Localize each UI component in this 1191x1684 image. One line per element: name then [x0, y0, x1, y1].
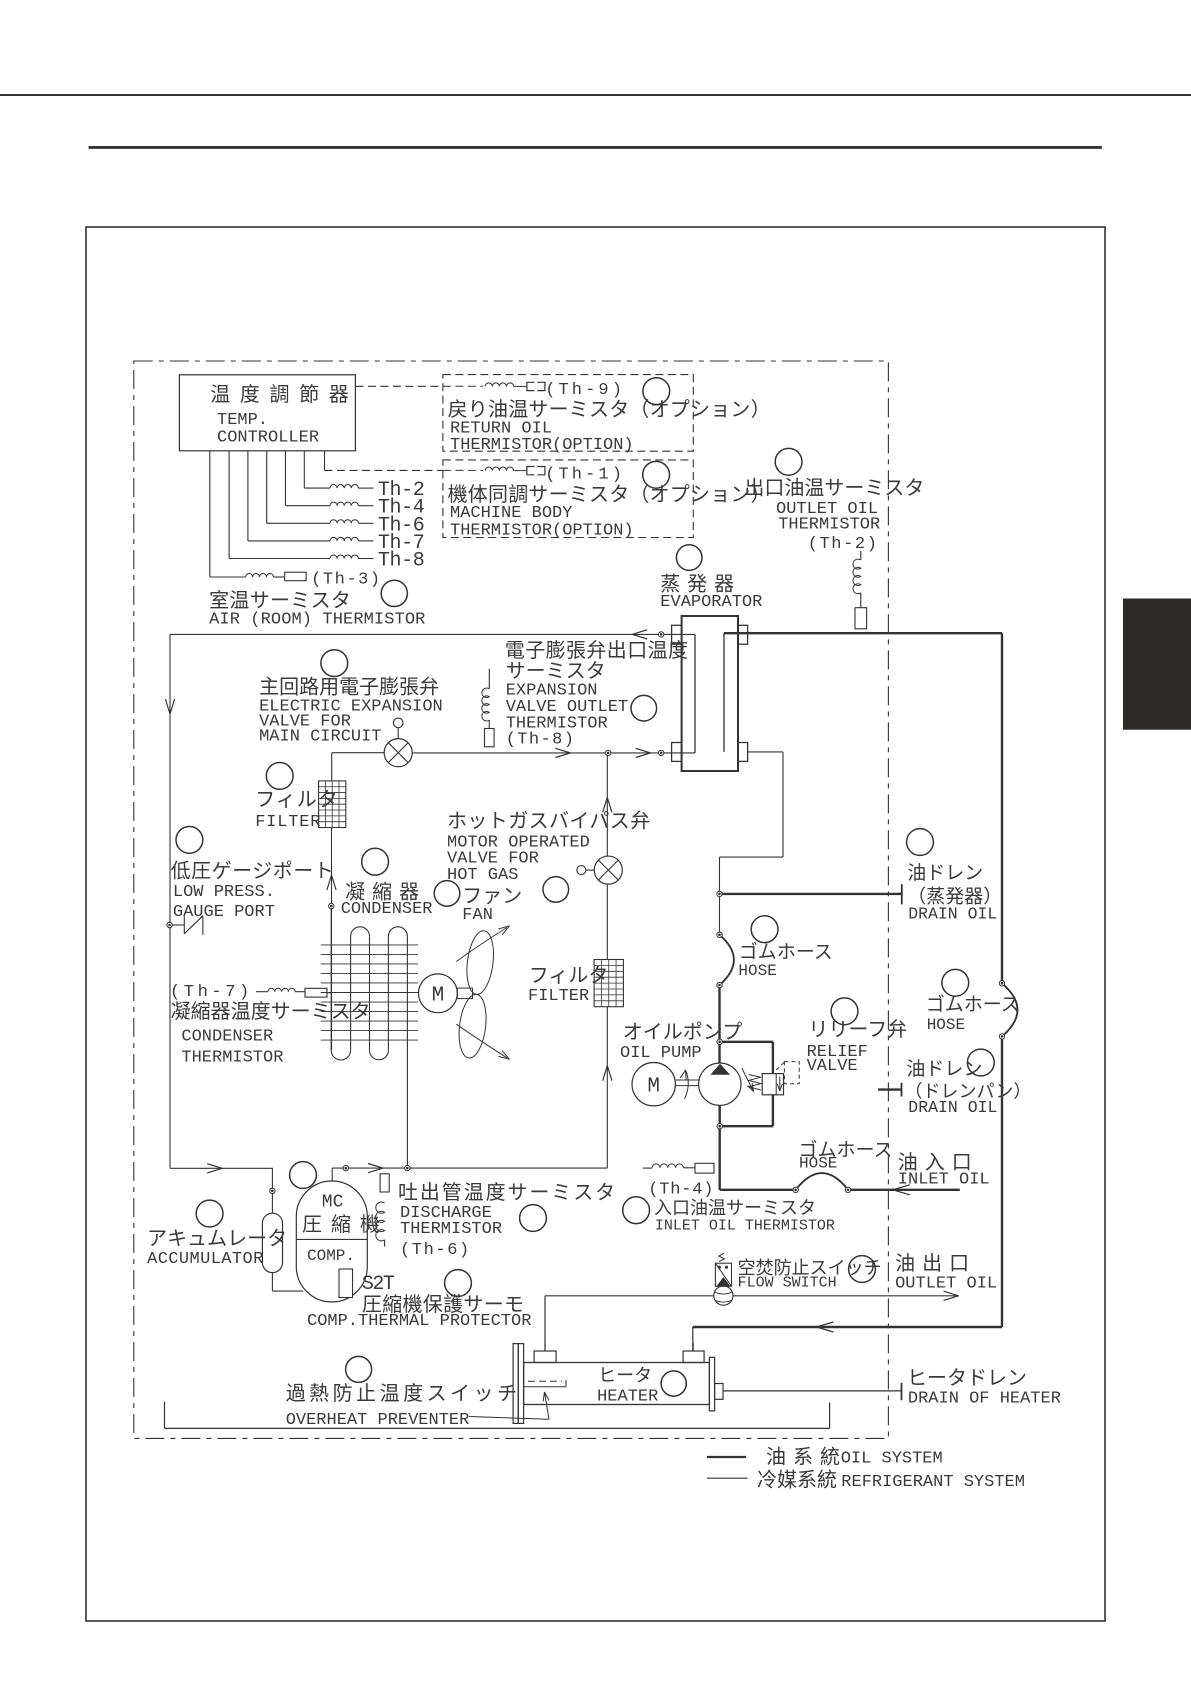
svg-text:CONTROLLER: CONTROLLER: [217, 429, 319, 448]
svg-text:油ドレン: 油ドレン: [907, 862, 983, 884]
svg-text:電子膨張弁出口温度: 電子膨張弁出口温度: [505, 639, 689, 662]
svg-text:HOSE: HOSE: [799, 1155, 837, 1173]
svg-text:戻り油温サーミスタ（オプション）: 戻り油温サーミスタ（オプション）: [448, 398, 771, 421]
svg-text:FAN: FAN: [462, 906, 493, 925]
svg-text:EVAPORATOR: EVAPORATOR: [660, 593, 762, 612]
svg-text:GAUGE PORT: GAUGE PORT: [173, 903, 275, 922]
svg-text:低圧ゲージポート: 低圧ゲージポート: [171, 860, 335, 883]
svg-text:FILTER: FILTER: [255, 813, 321, 832]
svg-text:油ドレン: 油ドレン: [906, 1058, 982, 1080]
svg-text:THERMISTOR: THERMISTOR: [778, 515, 880, 534]
svg-text:TEMP.: TEMP.: [217, 411, 268, 430]
svg-text:AIR (ROOM) THERMISTOR: AIR (ROOM) THERMISTOR: [209, 610, 425, 629]
svg-text:オイルポンプ: オイルポンプ: [623, 1021, 742, 1044]
svg-text:FILTER: FILTER: [528, 987, 589, 1006]
svg-text:COMP.THERMAL PROTECTOR: COMP.THERMAL PROTECTOR: [307, 1312, 531, 1331]
svg-text:ファン: ファン: [462, 886, 522, 908]
svg-text:INLET OIL: INLET OIL: [898, 1171, 990, 1190]
svg-text:室温サーミスタ: 室温サーミスタ: [209, 589, 351, 612]
svg-text:(Th-7): (Th-7): [170, 983, 253, 1002]
svg-text:ヒータドレン: ヒータドレン: [907, 1367, 1027, 1390]
svg-text:油系統: 油系統: [766, 1445, 847, 1468]
svg-text:出口油温サーミスタ: 出口油温サーミスタ: [744, 477, 924, 500]
svg-text:MAIN CIRCUIT: MAIN CIRCUIT: [259, 728, 381, 747]
svg-text:冷媒系統: 冷媒系統: [757, 1469, 837, 1492]
svg-text:OVERHEAT PREVENTER: OVERHEAT PREVENTER: [286, 1411, 470, 1430]
svg-text:THERMISTOR: THERMISTOR: [400, 1220, 502, 1239]
svg-text:OIL SYSTEM: OIL SYSTEM: [841, 1449, 943, 1468]
svg-text:ゴムホース: ゴムホース: [926, 993, 1020, 1015]
svg-text:凝縮器温度サーミスタ: 凝縮器温度サーミスタ: [171, 1000, 371, 1023]
svg-text:ホットガスバイパス弁: ホットガスバイパス弁: [447, 810, 651, 833]
svg-text:DRAIN OF HEATER: DRAIN OF HEATER: [908, 1389, 1061, 1408]
svg-text:INLET OIL THERMISTOR: INLET OIL THERMISTOR: [655, 1218, 835, 1235]
svg-text:(Th-3): (Th-3): [311, 571, 382, 590]
svg-text:(Th-2): (Th-2): [808, 535, 879, 554]
svg-text:(Th-9): (Th-9): [545, 381, 625, 400]
svg-text:CONDENSER: CONDENSER: [341, 900, 433, 919]
svg-text:Th-8: Th-8: [378, 550, 424, 573]
svg-text:ACCUMULATOR: ACCUMULATOR: [147, 1250, 264, 1269]
svg-text:VALVE: VALVE: [807, 1057, 858, 1076]
svg-text:フィルタ: フィルタ: [255, 788, 339, 811]
svg-text:MC: MC: [322, 1193, 344, 1213]
svg-text:入口油温サーミスタ: 入口油温サーミスタ: [654, 1198, 816, 1218]
svg-text:S2T: S2T: [362, 1273, 395, 1296]
svg-text:DRAIN OIL: DRAIN OIL: [908, 1098, 997, 1117]
svg-text:過熱防止温度スイッチ: 過熱防止温度スイッチ: [286, 1382, 521, 1405]
svg-text:OIL PUMP: OIL PUMP: [620, 1044, 702, 1063]
svg-text:サーミスタ: サーミスタ: [506, 659, 606, 682]
svg-text:COMP.: COMP.: [307, 1247, 355, 1265]
svg-text:HOT GAS: HOT GAS: [447, 866, 518, 885]
svg-text:機体同調サーミスタ（オプション）: 機体同調サーミスタ（オプション）: [448, 483, 771, 506]
svg-text:HOSE: HOSE: [927, 1016, 965, 1034]
svg-text:MACHINE BODY: MACHINE BODY: [450, 504, 572, 523]
svg-text:REFRIGERANT SYSTEM: REFRIGERANT SYSTEM: [841, 1473, 1025, 1492]
svg-text:(Th-4): (Th-4): [648, 1181, 714, 1200]
svg-text:HEATER: HEATER: [597, 1388, 658, 1407]
svg-text:M: M: [432, 985, 445, 1008]
svg-text:(Th-6): (Th-6): [400, 1241, 471, 1260]
svg-text:M: M: [647, 1076, 660, 1099]
svg-text:フィルタ: フィルタ: [529, 964, 609, 987]
svg-text:油出口: 油出口: [895, 1252, 976, 1275]
svg-text:THERMISTOR(OPTION): THERMISTOR(OPTION): [450, 436, 634, 455]
svg-text:DRAIN OIL: DRAIN OIL: [908, 905, 997, 924]
svg-text:温度調節器: 温度調節器: [210, 383, 358, 406]
svg-text:主回路用電子膨張弁: 主回路用電子膨張弁: [259, 675, 439, 698]
svg-text:THERMISTOR(OPTION): THERMISTOR(OPTION): [450, 521, 634, 540]
svg-text:アキュムレータ: アキュムレータ: [147, 1227, 287, 1250]
svg-text:THERMISTOR: THERMISTOR: [181, 1049, 283, 1068]
svg-text:(Th-8): (Th-8): [506, 731, 576, 750]
svg-text:FLOW SWITCH: FLOW SWITCH: [738, 1275, 837, 1292]
svg-text:(Th-1): (Th-1): [545, 465, 625, 484]
svg-text:CONDENSER: CONDENSER: [181, 1027, 273, 1046]
svg-text:ゴムホース: ゴムホース: [739, 941, 833, 963]
svg-text:LOW PRESS.: LOW PRESS.: [173, 883, 275, 902]
svg-text:HOSE: HOSE: [738, 962, 776, 980]
svg-text:リリーフ弁: リリーフ弁: [808, 1018, 907, 1041]
svg-text:OUTLET OIL: OUTLET OIL: [895, 1275, 997, 1294]
svg-text:吐出管温度サーミスタ: 吐出管温度サーミスタ: [398, 1181, 617, 1204]
svg-text:ヒータ: ヒータ: [598, 1366, 652, 1386]
